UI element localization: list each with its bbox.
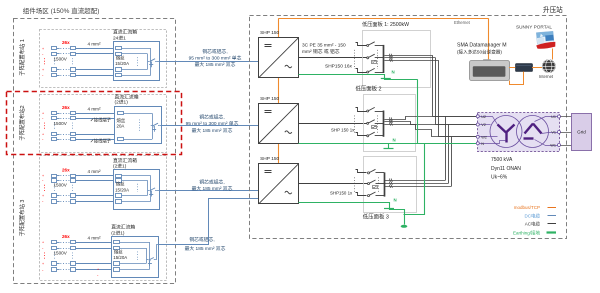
LV panel 3 breaker top — [356, 170, 367, 173]
pv string row 2.2 — [57, 118, 60, 120]
svg-text:+: + — [42, 194, 44, 198]
svg-text:Grid: Grid — [577, 129, 586, 134]
svg-text:modbus/TCP: modbus/TCP — [514, 205, 540, 210]
pv string row 1.2 — [57, 53, 60, 55]
LV panel 3 ellipsis — [354, 177, 356, 192]
svg-text:4 mm²: 4 mm² — [88, 235, 101, 240]
group 3 DC output wire — [160, 190, 259, 192]
transformer internal connectors — [478, 117, 498, 125]
inverter 1 AC wire to panel 1 — [299, 57, 367, 59]
svg-text:铜芯或铝芯,: 铜芯或铝芯, — [199, 179, 224, 186]
pv string row 2.4 — [57, 139, 60, 141]
orange wire datamanager-switch — [509, 67, 515, 69]
svg-text:+: + — [42, 262, 44, 266]
modbus orange bus horizontal — [279, 18, 489, 20]
svg-text:+: + — [42, 68, 44, 72]
bundle A verticals — [432, 55, 434, 116]
svg-text:AC电缆: AC电缆 — [525, 220, 541, 227]
svg-text:26x: 26x — [62, 105, 70, 110]
LV panel 3 feeder ticks — [389, 179, 390, 182]
orange wire below switch — [510, 72, 524, 85]
svg-text:24进1: 24进1 — [113, 34, 126, 41]
svg-text:15/20A: 15/20A — [115, 187, 129, 192]
ellipsis dots group 2 — [44, 123, 46, 130]
sub-array dotted box 3 — [40, 156, 167, 281]
combiner 3 fuses — [116, 175, 122, 178]
LV panel 2 ellipsis — [354, 116, 356, 133]
svg-text:最大 185 mm² 双芯: 最大 185 mm² 双芯 — [185, 245, 226, 252]
pv string row 3.4 — [57, 201, 60, 203]
svg-text:SUNNY PORTAL: SUNNY PORTAL — [516, 24, 552, 29]
LV panel 2 box — [364, 95, 416, 152]
svg-text:子阵配置布站 3: 子阵配置布站 3 — [18, 200, 26, 237]
transformer dashed box — [478, 113, 560, 152]
earth electrode — [401, 225, 408, 228]
combiner 2 terminal block labels — [91, 118, 93, 121]
svg-text:U2: U2 — [481, 115, 486, 119]
orange wire switch-globe — [532, 67, 542, 69]
DC combiner box 3 — [114, 170, 160, 210]
inverter 3 earthing run — [299, 203, 405, 225]
transformer circle LV (wye) — [490, 116, 522, 148]
group 2 DC output wire — [162, 125, 259, 127]
DC combiner box 4 — [112, 237, 159, 278]
wye winding symbol — [498, 125, 507, 133]
svg-text:接线端子: 接线端子 — [94, 117, 112, 124]
combiner 3 DC switch — [148, 190, 150, 192]
delta winding symbol — [525, 124, 534, 134]
svg-text:SMA Datamanager M: SMA Datamanager M — [457, 43, 507, 49]
svg-text:铜芯或铝芯,: 铜芯或铝芯, — [189, 236, 214, 243]
LV panel 1 box — [363, 31, 431, 88]
LV panel 3 breaker bottom — [356, 193, 367, 196]
pv string row 4.2 — [57, 248, 60, 250]
svg-text:SHP 150 1x: SHP 150 1x — [331, 128, 355, 133]
ellipsis dots group 4 — [44, 253, 46, 260]
combiner 2 fuses — [118, 112, 124, 115]
svg-text:直流汇流箱: 直流汇流箱 — [113, 29, 137, 36]
svg-text:(2进1): (2进1) — [111, 229, 125, 236]
pv string row 3.3 — [57, 195, 60, 197]
LV panel 2 breaker bottom — [356, 133, 367, 136]
svg-text:V1: V1 — [551, 131, 556, 135]
datamanager device — [484, 60, 491, 62]
svg-text:(接入多达50台逆变器): (接入多达50台逆变器) — [457, 49, 502, 56]
LV panel 1 ellipsis — [354, 50, 356, 69]
ellipsis dots group 3 — [44, 185, 46, 191]
pv string row 1.1 — [57, 48, 60, 50]
svg-text:3C PE 35 mm² - 150: 3C PE 35 mm² - 150 — [302, 42, 346, 48]
svg-text:+: + — [42, 133, 44, 137]
pv string row 3.2 — [57, 180, 60, 182]
svg-text:SHP 150: SHP 150 — [260, 156, 279, 162]
svg-text:组件场区 (150% 直流超配): 组件场区 (150% 直流超配) — [23, 6, 100, 15]
svg-text:N: N — [392, 69, 395, 74]
svg-text:最大 185 mm² 双芯: 最大 185 mm² 双芯 — [195, 61, 236, 68]
LV panel 1 bus bar — [383, 45, 385, 73]
inverter 1 AC symbol — [285, 65, 292, 68]
earthing vertical right of panel 2 — [404, 144, 425, 215]
inverter 2 AC wire to panel 2 — [299, 123, 367, 125]
combiner 1 fuses — [116, 47, 122, 50]
combiner 1 DC switch — [148, 61, 150, 63]
svg-text:mm² 铜芯 或 铝芯: mm² 铜芯 或 铝芯 — [302, 48, 340, 55]
bundle A horizontals to transformer — [433, 116, 478, 118]
svg-text:W1: W1 — [550, 144, 556, 148]
sub-array dotted box 1 — [40, 30, 167, 88]
svg-text:(2进1): (2进1) — [113, 163, 127, 170]
svg-text:15/20A: 15/20A — [115, 61, 129, 66]
svg-text:最大 185 mm² 双芯: 最大 185 mm² 双芯 — [192, 127, 233, 134]
svg-text:低压面板 2: 低压面板 2 — [356, 84, 382, 92]
svg-text:4 mm²: 4 mm² — [88, 169, 101, 174]
combiner 4 DC switch — [147, 259, 149, 261]
combiner 4 fuses — [114, 241, 120, 244]
modbus orange drop to datamanager — [488, 18, 490, 59]
grid box — [572, 114, 592, 151]
svg-text:26x: 26x — [62, 234, 70, 239]
wires transformer to grid — [561, 116, 572, 118]
ground bar — [381, 78, 391, 80]
inverter 3 DC symbol — [265, 170, 272, 172]
svg-text:1500V: 1500V — [54, 56, 68, 61]
svg-text:升压站: 升压站 — [543, 5, 563, 14]
svg-text:1500V: 1500V — [54, 251, 68, 256]
LV panel 2 bus bar — [383, 111, 385, 137]
sub-array dotted box 2 — [40, 95, 167, 153]
sunny portal icon — [535, 31, 556, 49]
svg-text:N: N — [394, 197, 397, 202]
svg-text:最大 185 mm² 双芯: 最大 185 mm² 双芯 — [192, 185, 233, 192]
combiner 1 internal bus — [121, 48, 151, 50]
panel 3 feeders to bundle B — [385, 180, 446, 182]
svg-text:N: N — [393, 138, 396, 143]
svg-text:7500 kVA: 7500 kVA — [491, 157, 513, 163]
LV panel 3 bus bar — [384, 172, 386, 196]
ground bar — [384, 208, 394, 210]
svg-text:铜芯或铝芯,: 铜芯或铝芯, — [199, 114, 224, 121]
svg-text:1500V: 1500V — [54, 183, 68, 188]
svg-text:SHP 150: SHP 150 — [260, 30, 279, 36]
svg-text:SHP 150: SHP 150 — [260, 96, 279, 102]
svg-text:子阵配置布站 1: 子阵配置布站 1 — [18, 39, 26, 76]
svg-text:N: N — [481, 142, 484, 146]
LV panel 1 feeder ticks — [389, 54, 390, 57]
svg-text:DC电缆: DC电缆 — [525, 212, 541, 219]
pv string row 2.1 — [57, 113, 60, 115]
pv string row 3.1 — [57, 175, 60, 177]
svg-text:95 mm² to 300 mm² 单芯: 95 mm² to 300 mm² 单芯 — [186, 120, 239, 127]
panel 1 feeders to bundle A — [385, 55, 433, 57]
svg-text:接线端子: 接线端子 — [94, 138, 112, 145]
transformer circle HV (delta) — [517, 116, 549, 148]
svg-text:SHP150 1x: SHP150 1x — [330, 190, 353, 195]
orange wire portal-globe — [552, 49, 554, 60]
svg-text:(2进1): (2进1) — [115, 99, 129, 106]
panel 2 feeder staircase — [385, 117, 478, 120]
svg-text:Earthing/接地: Earthing/接地 — [513, 229, 541, 236]
svg-text:15/20A: 15/20A — [113, 255, 127, 260]
pv string row 2.3 — [57, 134, 60, 136]
svg-text:26x: 26x — [62, 168, 70, 173]
svg-text:铜芯或铝芯,: 铜芯或铝芯, — [202, 48, 227, 55]
transformer terminals left — [476, 115, 479, 118]
inverter 3 AC wire to panel 3 — [299, 183, 368, 185]
svg-text:低压面板 3: 低压面板 3 — [363, 212, 389, 220]
svg-text:直流汇流箱: 直流汇流箱 — [113, 157, 137, 164]
combiner 2 DC switch — [151, 125, 153, 127]
LV panel 3 breaker mid — [368, 183, 370, 185]
pv string row 4.1 — [57, 242, 60, 244]
svg-text:直流汇流箱: 直流汇流箱 — [115, 94, 139, 101]
inverter 2 AC symbol — [285, 131, 292, 134]
svg-text:低压面板 1: 2500kW: 低压面板 1: 2500kW — [362, 20, 409, 28]
pv string row 4.3 — [57, 263, 60, 265]
inverter 1 earthing run — [299, 75, 418, 80]
bundle B verticals — [445, 116, 447, 180]
combiner 2 internal wiring — [124, 113, 152, 115]
earthing vertical to transformer neutral — [417, 79, 419, 143]
DC combiner box 1 — [114, 42, 160, 81]
inverter 1 DC symbol — [265, 44, 272, 46]
LV panel 1 breaker bottom — [356, 69, 367, 73]
LV panel 1 breaker top — [356, 43, 367, 46]
group 1 DC output wire — [160, 61, 259, 63]
svg-text:4 mm²: 4 mm² — [88, 42, 101, 47]
ellipsis dots group 1 — [44, 58, 46, 65]
inverter 2 DC symbol — [265, 110, 272, 112]
svg-text:Uk~6%: Uk~6% — [491, 175, 508, 181]
pv string row 1.4 — [57, 75, 60, 77]
svg-text:子阵配置布站2: 子阵配置布站2 — [18, 105, 26, 140]
boost station dashed box — [250, 16, 567, 239]
svg-text:20A: 20A — [117, 123, 125, 128]
LV panel 1 breaker mid — [367, 57, 369, 59]
svg-text:+: + — [42, 47, 44, 51]
inverter 3 AC symbol — [285, 191, 292, 194]
pv string row 4.4 — [57, 269, 60, 271]
LV panel 3 box — [364, 157, 417, 213]
pv string row 1.3 — [57, 69, 60, 71]
modbus orange vertical through inverters — [278, 18, 280, 164]
svg-text:U1: U1 — [551, 115, 556, 119]
svg-text:直流汇流箱: 直流汇流箱 — [111, 224, 135, 231]
module field outer dashed box — [14, 19, 176, 284]
svg-text:95 mm² to 300 mm² 单芯: 95 mm² to 300 mm² 单芯 — [189, 54, 242, 61]
svg-text:Ethernet: Ethernet — [454, 20, 471, 25]
svg-text:W2: W2 — [481, 135, 487, 139]
svg-text:1500V: 1500V — [54, 121, 68, 126]
network switch device — [516, 64, 533, 72]
DC combiner box 2 — [115, 107, 162, 144]
LV panel 2 feeder ticks — [389, 117, 390, 120]
group 4 DC output wire — [159, 199, 259, 245]
ground bar — [384, 148, 394, 150]
svg-text:+: + — [97, 268, 99, 272]
svg-text:26x: 26x — [62, 40, 70, 45]
transformer terminals right — [558, 115, 561, 118]
svg-text:+: + — [42, 241, 44, 245]
svg-text:Dyn11 ONAN: Dyn11 ONAN — [491, 166, 521, 172]
svg-text:V2: V2 — [481, 123, 486, 127]
combiner 4 internal bus — [120, 242, 150, 244]
svg-text:SHP150 16x: SHP150 16x — [325, 64, 353, 70]
LV panel 2 breaker mid — [367, 122, 369, 124]
red highlight dashed box around sub-array 2 — [7, 92, 182, 155]
svg-text:4 mm²: 4 mm² — [88, 107, 101, 112]
LV panel 2 breaker top — [356, 108, 367, 112]
inverter 2 earthing run / neutral to transformer — [299, 143, 478, 145]
svg-text:Internet: Internet — [539, 74, 554, 79]
internet globe — [542, 60, 555, 73]
combiner 3 internal bus — [121, 175, 151, 177]
